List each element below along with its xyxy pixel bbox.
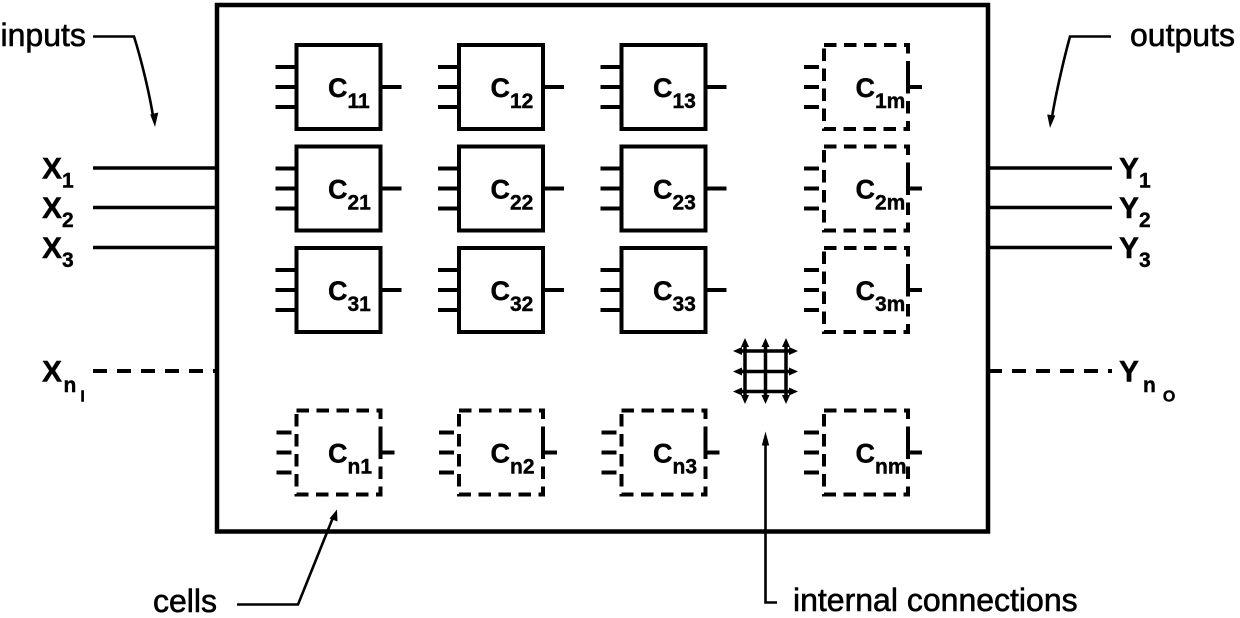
cell C33 <box>601 248 727 332</box>
output line Y3 <box>988 246 1112 250</box>
cell Cn2 <box>439 411 557 495</box>
svg-text:outputs: outputs <box>1130 17 1235 53</box>
svg-text:cells: cells <box>153 583 217 618</box>
cell C2m <box>804 147 922 231</box>
input line X1 <box>93 166 217 170</box>
cell C21 <box>276 147 402 231</box>
dashed output line Yn <box>988 369 1112 373</box>
cell C1m <box>804 45 922 129</box>
cell C3m <box>804 248 922 332</box>
output line Y2 <box>988 206 1112 210</box>
array boundary box <box>217 5 988 532</box>
cell C22 <box>438 147 564 231</box>
cell C11 <box>276 45 402 129</box>
internal connections symbol (crosshatch with arrows) <box>733 338 798 404</box>
leader arrow from internal connections label <box>766 440 778 603</box>
input line X3 <box>93 246 217 250</box>
output line Y1 <box>988 166 1112 170</box>
cell C32 <box>438 248 564 332</box>
cell C12 <box>438 45 564 129</box>
cell Cnm <box>804 411 922 495</box>
leader arrow from inputs label <box>93 37 154 120</box>
leader arrow from cells label <box>237 515 334 605</box>
svg-text:inputs: inputs <box>1 17 86 53</box>
leader arrow from outputs label <box>1052 37 1112 121</box>
dashed input line Xn <box>93 369 217 373</box>
cell C13 <box>601 45 727 129</box>
cell Cn3 <box>602 411 720 495</box>
cell C31 <box>276 248 402 332</box>
cell Cn1 <box>277 411 395 495</box>
cell C23 <box>601 147 727 231</box>
svg-text:internal connections: internal connections <box>793 582 1078 618</box>
input line X2 <box>93 206 217 210</box>
